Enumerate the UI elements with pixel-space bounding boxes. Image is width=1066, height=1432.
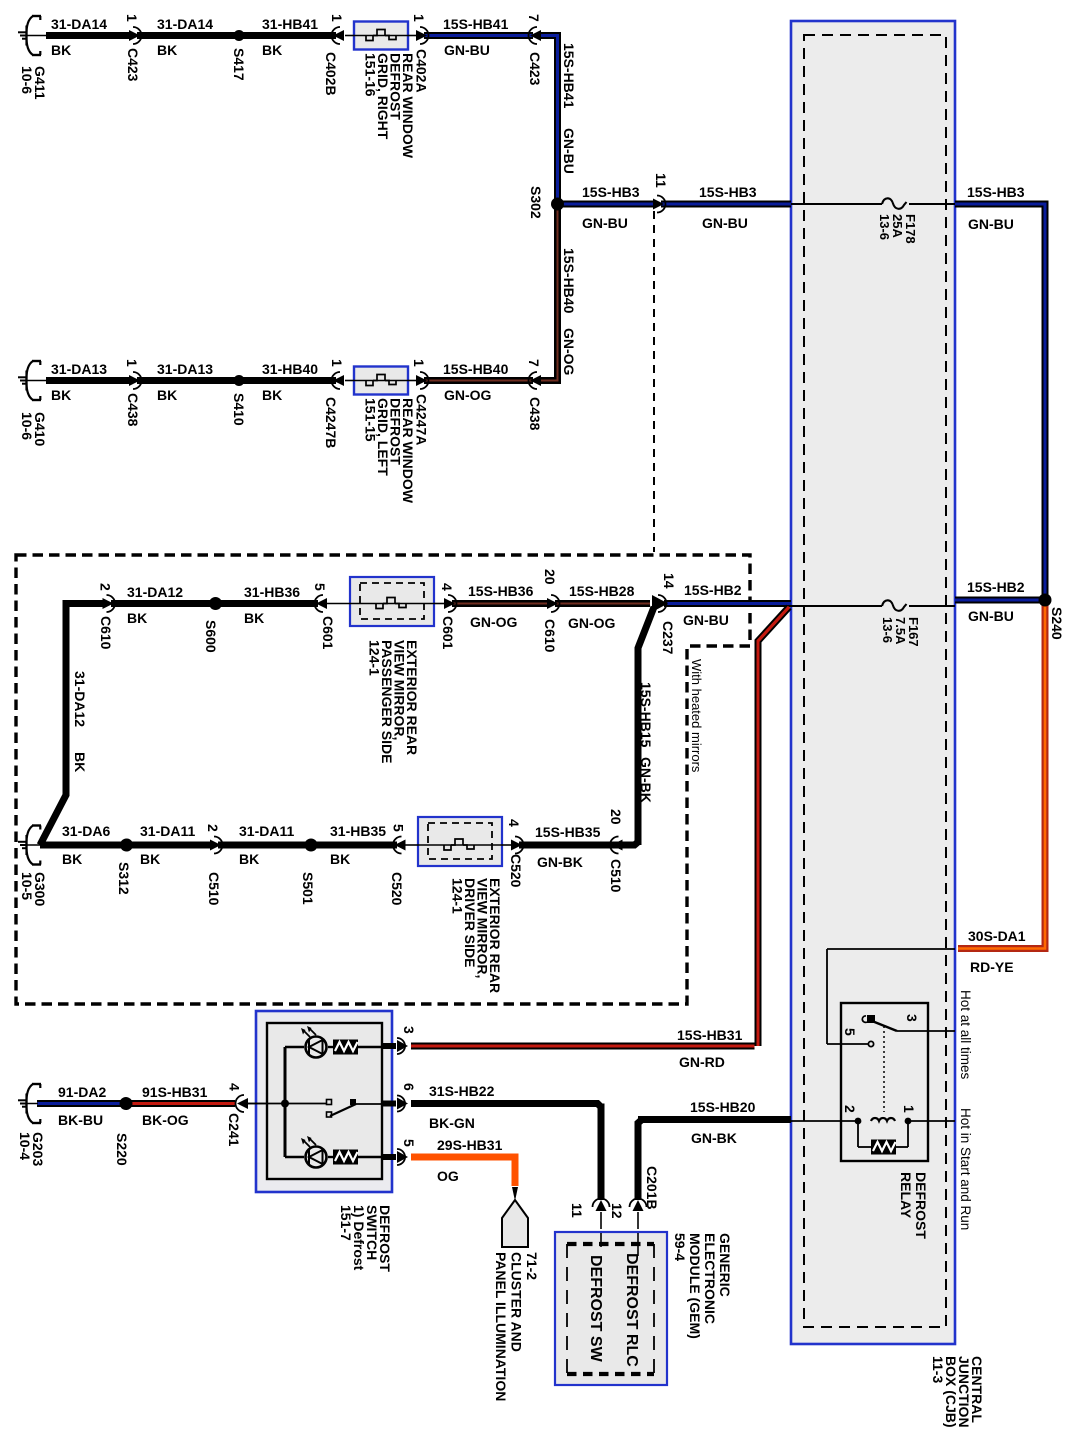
svg-text:C510: C510 xyxy=(206,872,222,906)
svg-text:5: 5 xyxy=(391,824,407,832)
svg-text:6: 6 xyxy=(401,1083,417,1091)
svg-text:S312: S312 xyxy=(116,862,132,895)
svg-text:15S-HB3: 15S-HB3 xyxy=(967,184,1025,200)
svg-text:C510: C510 xyxy=(608,859,624,893)
svg-text:15S-HB2: 15S-HB2 xyxy=(684,582,742,598)
svg-text:GN-BU: GN-BU xyxy=(968,216,1014,232)
svg-text:RD-YE: RD-YE xyxy=(970,959,1014,975)
svg-text:BK-GN: BK-GN xyxy=(429,1115,475,1131)
svg-text:C520: C520 xyxy=(508,854,524,888)
svg-text:BK: BK xyxy=(330,851,350,867)
svg-text:5: 5 xyxy=(842,1028,858,1036)
svg-text:GN-BU: GN-BU xyxy=(582,215,628,231)
svg-text:C237: C237 xyxy=(660,621,676,655)
svg-text:BK: BK xyxy=(127,610,147,626)
svg-text:C438: C438 xyxy=(527,397,543,431)
svg-text:15S-HB35: 15S-HB35 xyxy=(535,824,601,840)
svg-text:15S-HB40: 15S-HB40 xyxy=(561,248,577,314)
svg-text:C520: C520 xyxy=(389,872,405,906)
svg-text:31-HB40: 31-HB40 xyxy=(262,361,318,377)
svg-text:2: 2 xyxy=(205,824,221,832)
svg-text:7: 7 xyxy=(526,359,542,367)
svg-text:1: 1 xyxy=(411,14,427,22)
svg-text:GN-BK: GN-BK xyxy=(537,854,583,870)
svg-text:15S-HB15: 15S-HB15 xyxy=(638,682,654,748)
svg-text:15S-HB3: 15S-HB3 xyxy=(582,184,640,200)
svg-text:BK: BK xyxy=(157,387,177,403)
svg-text:GN-OG: GN-OG xyxy=(470,614,518,630)
svg-text:1: 1 xyxy=(329,14,345,22)
svg-text:91-DA2: 91-DA2 xyxy=(58,1084,106,1100)
svg-text:1: 1 xyxy=(411,359,427,367)
svg-text:GN-BU: GN-BU xyxy=(702,215,748,231)
svg-text:C601: C601 xyxy=(320,616,336,650)
svg-text:31-DA11: 31-DA11 xyxy=(239,823,294,839)
svg-text:4: 4 xyxy=(506,819,522,827)
svg-text:F1677.5A13-6: F1677.5A13-6 xyxy=(880,617,921,647)
svg-text:1: 1 xyxy=(329,359,345,367)
svg-text:1: 1 xyxy=(901,1105,917,1113)
svg-text:GN-BU: GN-BU xyxy=(683,612,729,628)
svg-text:BK: BK xyxy=(157,42,177,58)
svg-text:15S-HB36: 15S-HB36 xyxy=(468,583,534,599)
svg-text:S501: S501 xyxy=(300,872,316,905)
svg-text:3: 3 xyxy=(401,1026,417,1034)
svg-text:DEFROST SW: DEFROST SW xyxy=(587,1255,604,1363)
svg-text:S417: S417 xyxy=(231,48,247,81)
svg-text:BK-BU: BK-BU xyxy=(58,1112,103,1128)
svg-text:C423: C423 xyxy=(527,52,543,86)
svg-text:GN-RD: GN-RD xyxy=(679,1054,725,1070)
svg-text:4: 4 xyxy=(227,1083,243,1091)
svg-text:GN-BK: GN-BK xyxy=(638,757,654,803)
svg-text:15S-HB28: 15S-HB28 xyxy=(569,583,635,599)
svg-text:C4247B: C4247B xyxy=(323,397,339,448)
svg-text:S600: S600 xyxy=(203,620,219,653)
svg-text:S240: S240 xyxy=(1049,607,1065,640)
svg-text:GN-BU: GN-BU xyxy=(561,128,577,174)
svg-text:C601: C601 xyxy=(440,616,456,650)
svg-text:1: 1 xyxy=(124,14,140,22)
svg-text:GN-BU: GN-BU xyxy=(444,42,490,58)
svg-text:S410: S410 xyxy=(231,393,247,426)
svg-text:31-DA13: 31-DA13 xyxy=(157,361,213,377)
svg-text:15S-HB41: 15S-HB41 xyxy=(561,43,577,109)
svg-text:DEFROST RLC: DEFROST RLC xyxy=(623,1253,640,1367)
svg-text:Hot at all times: Hot at all times xyxy=(958,990,973,1080)
svg-text:15S-HB3: 15S-HB3 xyxy=(699,184,757,200)
svg-text:29S-HB31: 29S-HB31 xyxy=(437,1137,503,1153)
svg-text:C438: C438 xyxy=(125,393,141,427)
svg-text:5: 5 xyxy=(401,1139,417,1147)
svg-text:7: 7 xyxy=(526,14,542,22)
svg-text:14: 14 xyxy=(661,573,677,589)
svg-text:BK: BK xyxy=(140,851,160,867)
svg-text:BK: BK xyxy=(239,851,259,867)
svg-text:GN-BU: GN-BU xyxy=(968,608,1014,624)
svg-text:BK: BK xyxy=(244,610,264,626)
svg-text:BK: BK xyxy=(262,387,282,403)
svg-text:C610: C610 xyxy=(98,616,114,650)
svg-text:S302: S302 xyxy=(528,186,544,219)
svg-text:BK: BK xyxy=(62,851,82,867)
svg-text:5: 5 xyxy=(312,583,328,591)
svg-text:1: 1 xyxy=(124,359,140,367)
svg-text:Hot in Start and Run: Hot in Start and Run xyxy=(958,1108,973,1230)
svg-text:4: 4 xyxy=(439,583,455,591)
svg-text:GN-OG: GN-OG xyxy=(561,328,577,376)
svg-text:GN-OG: GN-OG xyxy=(444,387,492,403)
svg-text:15S-HB31: 15S-HB31 xyxy=(677,1027,743,1043)
svg-text:91S-HB31: 91S-HB31 xyxy=(142,1084,208,1100)
svg-text:11: 11 xyxy=(653,173,669,188)
svg-text:BK: BK xyxy=(262,42,282,58)
svg-text:BK: BK xyxy=(51,42,71,58)
svg-text:2: 2 xyxy=(98,583,114,591)
svg-text:S220: S220 xyxy=(114,1133,130,1166)
svg-text:20: 20 xyxy=(608,809,624,825)
svg-text:20: 20 xyxy=(542,569,558,585)
svg-text:31-HB35: 31-HB35 xyxy=(330,823,386,839)
svg-text:31S-HB22: 31S-HB22 xyxy=(429,1083,495,1099)
svg-text:With heated mirrors: With heated mirrors xyxy=(689,659,704,773)
svg-text:GN-OG: GN-OG xyxy=(568,615,616,631)
svg-text:C423: C423 xyxy=(125,48,141,82)
svg-text:15S-HB41: 15S-HB41 xyxy=(443,16,509,32)
svg-text:31-DA14: 31-DA14 xyxy=(157,16,213,32)
svg-text:31-HB36: 31-HB36 xyxy=(244,584,300,600)
svg-text:C610: C610 xyxy=(542,619,558,653)
svg-text:12: 12 xyxy=(609,1203,625,1219)
svg-text:C201B: C201B xyxy=(644,1166,660,1210)
svg-text:30S-DA1: 30S-DA1 xyxy=(968,928,1026,944)
svg-text:15S-HB40: 15S-HB40 xyxy=(443,361,509,377)
svg-text:BK: BK xyxy=(51,387,71,403)
svg-text:11: 11 xyxy=(569,1203,585,1218)
svg-text:2: 2 xyxy=(842,1105,858,1113)
svg-text:31-DA6: 31-DA6 xyxy=(62,823,110,839)
svg-text:C241: C241 xyxy=(226,1113,242,1147)
svg-text:31-DA13: 31-DA13 xyxy=(51,361,107,377)
svg-text:15S-HB20: 15S-HB20 xyxy=(690,1099,756,1115)
svg-text:31-DA12: 31-DA12 xyxy=(127,584,183,600)
svg-text:15S-HB2: 15S-HB2 xyxy=(967,579,1025,595)
svg-text:C402B: C402B xyxy=(323,52,339,96)
svg-text:BK: BK xyxy=(72,752,88,772)
svg-text:31-DA14: 31-DA14 xyxy=(51,16,107,32)
svg-text:31-DA12: 31-DA12 xyxy=(72,671,88,727)
svg-text:BK-OG: BK-OG xyxy=(142,1112,189,1128)
svg-text:31-DA11: 31-DA11 xyxy=(140,823,195,839)
svg-text:GN-BK: GN-BK xyxy=(691,1130,737,1146)
svg-text:OG: OG xyxy=(437,1168,459,1184)
svg-text:3: 3 xyxy=(904,1014,920,1022)
svg-text:31-HB41: 31-HB41 xyxy=(262,16,318,32)
